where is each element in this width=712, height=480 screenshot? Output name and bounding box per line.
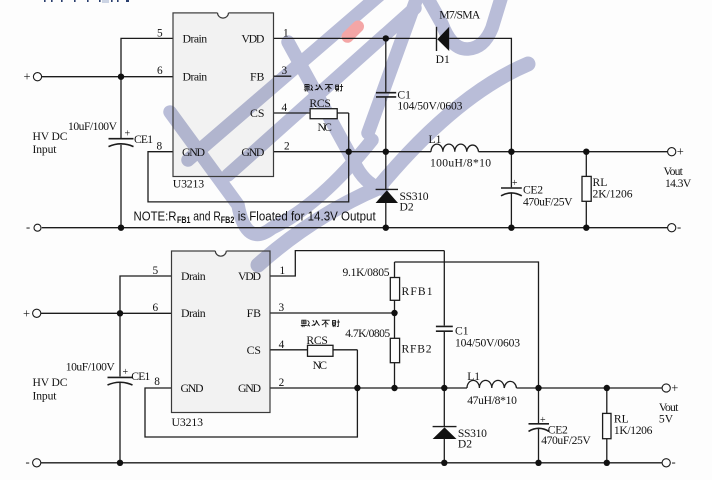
svg-text:+: + — [123, 367, 129, 378]
svg-text:and R: and R — [193, 209, 221, 224]
svg-text:L1: L1 — [467, 370, 480, 383]
svg-text:CE1: CE1 — [131, 370, 150, 383]
svg-text:Input: Input — [33, 390, 58, 403]
svg-text:+: + — [677, 145, 684, 159]
svg-text:FB: FB — [247, 306, 262, 320]
svg-text:104/50V/0603: 104/50V/0603 — [455, 336, 520, 349]
svg-text:FB: FB — [250, 69, 265, 83]
svg-text:Input: Input — [33, 143, 58, 156]
svg-text:RFB2: RFB2 — [402, 342, 432, 355]
svg-text:+: + — [512, 178, 518, 189]
svg-text:HV DC: HV DC — [33, 130, 68, 143]
svg-text:RFB1: RFB1 — [402, 285, 433, 298]
svg-text:-: - — [26, 220, 30, 234]
svg-text:47uH/8*10: 47uH/8*10 — [467, 394, 517, 407]
svg-text:CE2: CE2 — [523, 183, 543, 196]
svg-text:3: 3 — [282, 65, 288, 77]
svg-text:2K/1206: 2K/1206 — [593, 187, 633, 200]
svg-text:9.1K/0805: 9.1K/0805 — [343, 266, 390, 279]
svg-text:14.3V: 14.3V — [665, 177, 692, 190]
svg-text:RCS: RCS — [306, 334, 327, 347]
svg-text:470uF/25V: 470uF/25V — [541, 434, 591, 447]
svg-text:RCS: RCS — [309, 97, 330, 110]
svg-text:5V: 5V — [659, 413, 674, 426]
svg-text:5: 5 — [153, 265, 159, 277]
svg-text:D2: D2 — [400, 200, 414, 213]
svg-text:+: + — [125, 129, 131, 140]
svg-text:1K/1206: 1K/1206 — [614, 424, 653, 437]
svg-text:+: + — [23, 306, 30, 320]
svg-text:GND: GND — [238, 381, 261, 395]
svg-text:6: 6 — [157, 65, 163, 77]
svg-text:1: 1 — [280, 265, 286, 277]
svg-text:6: 6 — [153, 302, 159, 314]
svg-text:D1: D1 — [436, 53, 450, 66]
svg-text:-: - — [677, 220, 681, 234]
svg-text:8: 8 — [157, 141, 163, 153]
svg-text:2: 2 — [279, 377, 285, 389]
svg-text:104/50V/0603: 104/50V/0603 — [397, 100, 462, 113]
svg-text:GND: GND — [181, 381, 204, 395]
svg-text:470uF/25V: 470uF/25V — [523, 196, 573, 209]
svg-text:100uH/8*10: 100uH/8*10 — [430, 156, 491, 169]
svg-text:CE1: CE1 — [134, 133, 153, 146]
svg-text:-: - — [672, 455, 676, 469]
svg-text:CS: CS — [250, 106, 264, 120]
svg-text:3: 3 — [279, 302, 285, 314]
svg-text:FB2: FB2 — [221, 215, 235, 225]
svg-text:Drain: Drain — [183, 32, 208, 46]
svg-text:4: 4 — [279, 339, 285, 351]
svg-text:8: 8 — [154, 376, 160, 388]
svg-text:Drain: Drain — [183, 69, 208, 83]
svg-text:FB1: FB1 — [177, 215, 191, 225]
svg-text:D2: D2 — [458, 438, 472, 451]
svg-text:10uF/100V: 10uF/100V — [68, 120, 118, 133]
svg-text:Drain: Drain — [181, 306, 206, 320]
svg-text:L1: L1 — [429, 133, 442, 146]
svg-text:NOTE:R: NOTE:R — [134, 209, 177, 224]
svg-text:NC: NC — [318, 121, 333, 134]
svg-text:+: + — [671, 381, 678, 395]
svg-text:GND: GND — [182, 145, 205, 159]
svg-text:5: 5 — [157, 27, 163, 39]
svg-text:U3213: U3213 — [172, 415, 204, 429]
svg-text:is Floated for 14.3V Output: is Floated for 14.3V Output — [238, 209, 376, 224]
svg-text:2: 2 — [284, 141, 290, 153]
svg-text:-: - — [26, 455, 30, 469]
svg-text:M7/SMA: M7/SMA — [439, 9, 481, 22]
svg-text:GND: GND — [241, 145, 264, 159]
svg-text:1: 1 — [283, 27, 289, 39]
svg-text:NC: NC — [313, 359, 328, 372]
svg-text:10uF/100V: 10uF/100V — [66, 361, 116, 374]
svg-text:CS: CS — [247, 343, 261, 357]
svg-text:+: + — [24, 70, 31, 84]
svg-text:VDD: VDD — [238, 269, 261, 283]
svg-text:HV DC: HV DC — [33, 376, 68, 389]
svg-text:Drain: Drain — [181, 269, 206, 283]
svg-text:4.7K/0805: 4.7K/0805 — [345, 327, 390, 340]
svg-text:VDD: VDD — [241, 32, 264, 46]
svg-text:+: + — [540, 415, 546, 426]
svg-text:U3213: U3213 — [173, 176, 205, 190]
svg-text:4: 4 — [282, 102, 288, 114]
